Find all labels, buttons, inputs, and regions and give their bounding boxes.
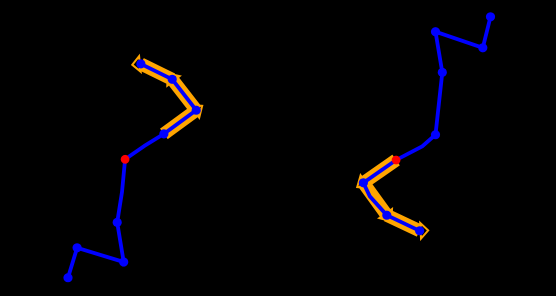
left plan arrow 3 (segment with open arrowhead) (132, 56, 172, 79)
right trajectory polyline (363, 17, 490, 231)
left plan arrow 1 (segment with open arrowhead) (164, 105, 202, 134)
right plan arrow 1 (segment with open arrowhead) (357, 160, 396, 188)
right plan arrow 3 (segment with open arrowhead) (387, 215, 428, 238)
right current-state red dot (392, 156, 401, 165)
left plan arrow 2 (segment with open arrowhead) (167, 73, 196, 110)
left trajectory polyline (68, 64, 196, 278)
left current-state red dot (121, 155, 130, 164)
right waypoint markers (359, 12, 495, 235)
right plan arrow 2 (segment with open arrowhead) (363, 183, 392, 222)
left waypoint markers (63, 59, 200, 282)
